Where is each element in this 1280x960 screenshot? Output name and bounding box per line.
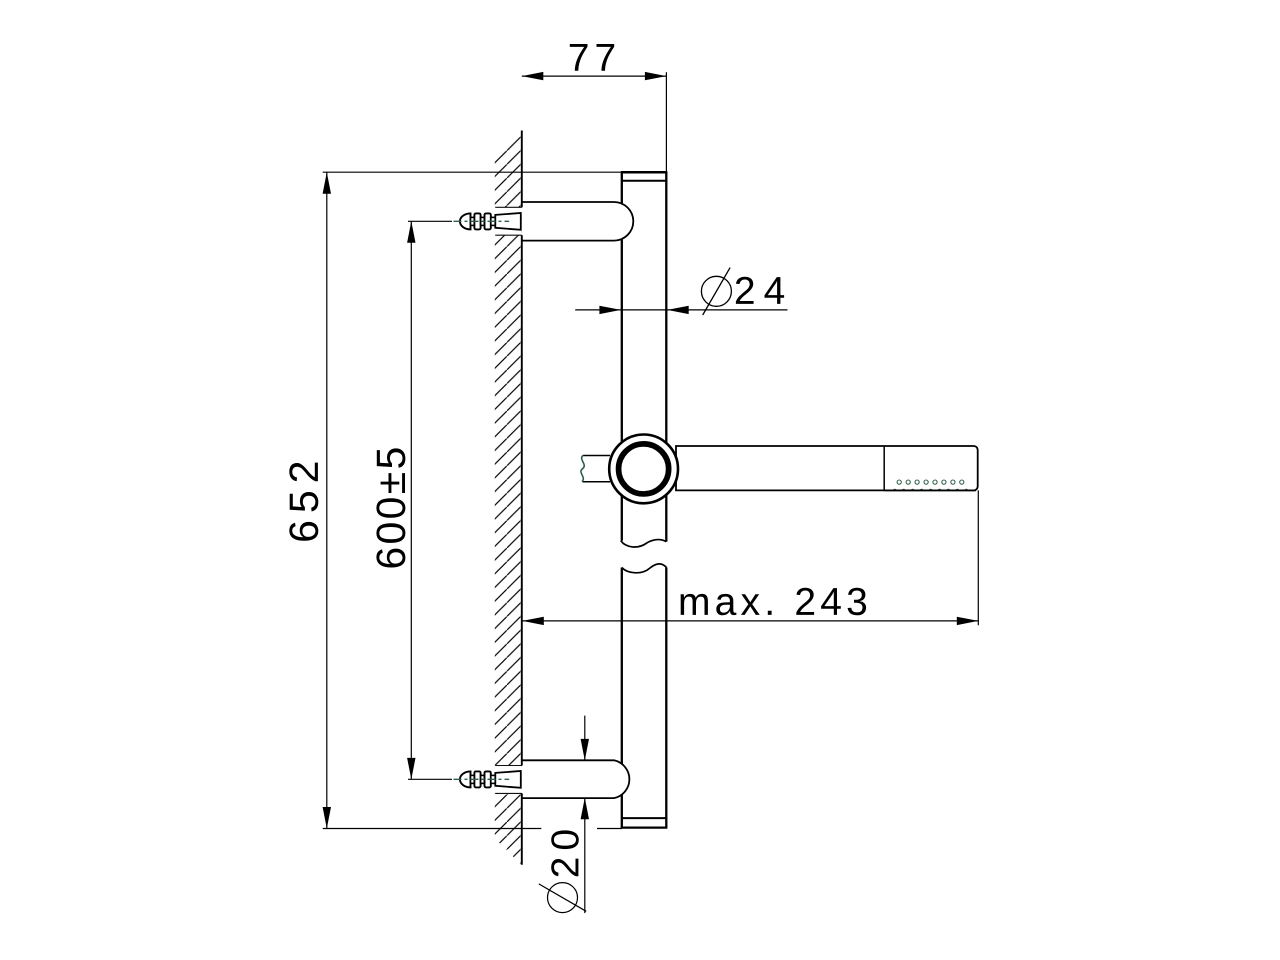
dimension Ø24 text [736, 277, 784, 304]
dimension Ø20 line [581, 716, 589, 914]
dimension Ø24 symbol [701, 268, 731, 315]
screw bottom centerline [454, 778, 510, 780]
screw top body [460, 213, 521, 230]
dimension Ø24 line [575, 306, 787, 314]
dimension 77 extension right [665, 72, 667, 171]
dimension 652 extension top [323, 171, 621, 173]
holder ring [609, 435, 678, 504]
holder arm stub [581, 455, 610, 482]
dimension max. 243 extension right [977, 490, 979, 625]
dimension Ø20 text [551, 830, 579, 876]
screw top centerline [454, 220, 510, 222]
dimension 600±5 line [407, 221, 415, 779]
dimension 77 line [522, 72, 667, 80]
handle bottom edge redraw [884, 489, 976, 491]
hand shower handle [676, 446, 978, 490]
spray nozzles row [897, 480, 964, 484]
dimension 652 text [289, 463, 318, 541]
wall anchor hole top [494, 207, 522, 235]
dimension max. 243 line [522, 617, 978, 625]
dimension 600±5 text [376, 448, 405, 567]
dimension 77 text [570, 44, 614, 71]
wall face line [521, 131, 523, 865]
screw bottom body [460, 771, 521, 788]
dimension 600±5 extension bottom [408, 778, 452, 780]
wall bracket bottom [522, 760, 630, 798]
rail upper segment [621, 172, 668, 547]
dimension Ø20 symbol [539, 883, 586, 913]
dimension 652 line [323, 172, 331, 828]
wall anchor hole bottom [494, 766, 522, 794]
dimension 600±5 extension top [408, 220, 452, 222]
dimension max. 243 text [681, 588, 867, 616]
rail lower segment [621, 564, 668, 828]
wall hatching [495, 131, 522, 866]
wall bracket top [522, 202, 634, 241]
dimension 652 extension bottom [323, 828, 622, 830]
spray nozzles lower bumps [893, 489, 968, 491]
